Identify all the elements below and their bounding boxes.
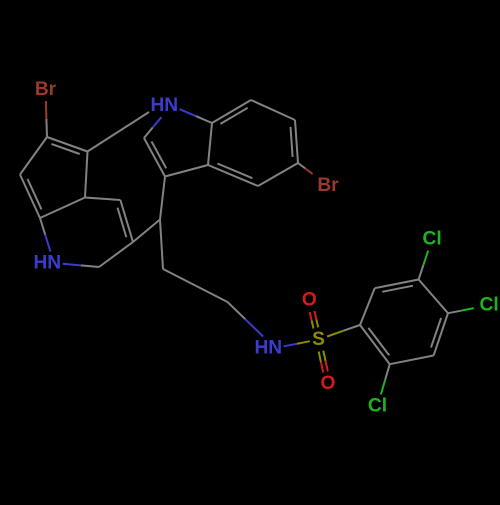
- svg-text:O: O: [321, 373, 336, 394]
- svg-text:HN: HN: [254, 338, 282, 359]
- svg-text:Br: Br: [35, 79, 57, 100]
- svg-text:Br: Br: [317, 175, 339, 196]
- svg-text:HN: HN: [150, 95, 178, 116]
- svg-text:O: O: [302, 290, 317, 311]
- svg-text:HN: HN: [33, 253, 61, 274]
- svg-text:Cl: Cl: [480, 295, 499, 316]
- svg-text:Cl: Cl: [423, 229, 442, 250]
- svg-text:S: S: [312, 329, 325, 350]
- svg-text:Cl: Cl: [368, 396, 387, 417]
